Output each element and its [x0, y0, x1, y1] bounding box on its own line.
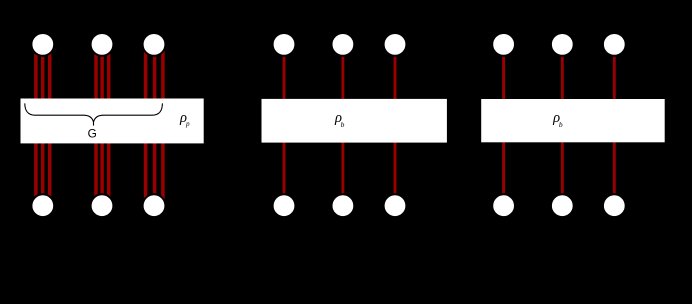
svg-text:b: b: [559, 120, 563, 129]
svg-text:b: b: [341, 120, 345, 129]
svg-text:p: p: [185, 120, 190, 128]
svg-text:G: G: [88, 127, 97, 141]
